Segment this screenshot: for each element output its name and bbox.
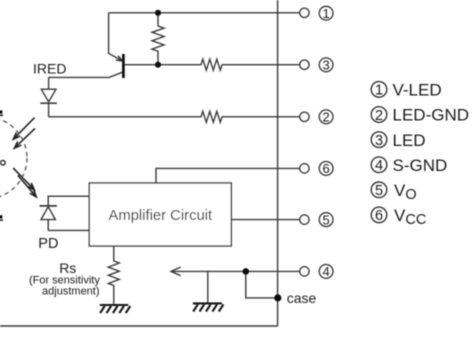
svg-text:PD: PD [38,236,58,252]
svg-text:Amplifier Circuit: Amplifier Circuit [109,208,213,224]
svg-text:5: 5 [375,183,383,199]
svg-text:2: 2 [322,110,329,125]
svg-text:3: 3 [375,133,383,149]
svg-text:LED: LED [393,131,426,150]
svg-text:6: 6 [322,161,329,176]
svg-text:1: 1 [322,6,329,21]
svg-text:4: 4 [322,264,329,279]
svg-text:case: case [287,290,317,306]
svg-text:4: 4 [375,158,383,174]
svg-text:VO: VO [394,181,417,203]
svg-text:3: 3 [322,58,329,73]
svg-text:adjustment): adjustment) [42,286,99,298]
svg-text:Rs: Rs [59,260,76,276]
svg-text:S-GND: S-GND [393,156,448,175]
svg-text:1: 1 [375,83,383,99]
svg-text:2: 2 [375,108,383,124]
svg-text:IRED: IRED [33,60,66,76]
svg-text:6: 6 [375,208,383,224]
svg-text:V-LED: V-LED [393,81,442,100]
svg-text:VCC: VCC [394,206,426,228]
svg-text:5: 5 [322,212,329,227]
svg-text:LED-GND: LED-GND [393,106,470,125]
